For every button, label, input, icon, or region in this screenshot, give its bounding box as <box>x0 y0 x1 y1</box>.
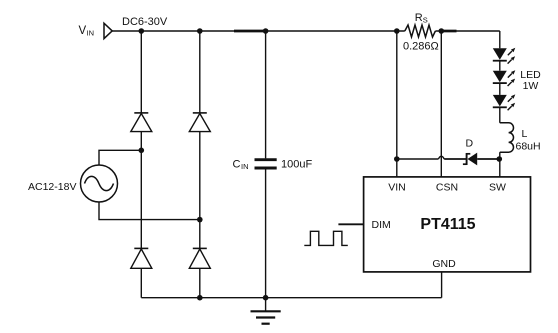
node bottom rail / right leg <box>197 295 203 301</box>
svg-text:VIN: VIN <box>388 182 406 194</box>
capacitor CIN branch wire upper <box>265 31 267 158</box>
LED D3 <box>493 94 516 110</box>
wire top rail left segment <box>112 30 405 32</box>
svg-text:DIM: DIM <box>372 219 391 231</box>
svg-text:C: C <box>233 159 241 171</box>
PWM square wave symbol <box>304 231 348 245</box>
AC source V1 <box>81 165 118 202</box>
ground <box>251 311 281 323</box>
diode bridge bottom-right <box>189 248 210 268</box>
wire thick segment after Rs <box>441 30 456 33</box>
svg-text:PT4115: PT4115 <box>420 216 475 233</box>
wire bottom rail <box>141 297 441 299</box>
node top rail / CIN <box>263 28 269 34</box>
input port triangle VIN <box>104 23 112 38</box>
svg-text:L: L <box>522 128 528 140</box>
wire DIM pin <box>338 223 363 225</box>
resistor Rs <box>405 25 436 37</box>
svg-text:GND: GND <box>432 258 456 270</box>
svg-text:S: S <box>423 15 428 24</box>
IC U1 PT4115 <box>364 177 531 272</box>
wire LED to inductor <box>499 107 501 123</box>
LED D1 <box>493 48 516 64</box>
svg-text:68uH: 68uH <box>516 141 541 153</box>
node bottom rail / ground <box>263 295 269 301</box>
svg-text:AC12-18V: AC12-18V <box>28 181 76 193</box>
wire thick segment before CIN node <box>234 30 266 33</box>
wire top rail right segment <box>435 30 499 32</box>
wire inductor to SW pin <box>499 152 501 177</box>
svg-text:SW: SW <box>489 182 506 194</box>
svg-text:R: R <box>415 12 423 24</box>
svg-text:IN: IN <box>87 29 95 38</box>
svg-text:1W: 1W <box>523 80 539 92</box>
wire diode to SW node <box>477 158 499 160</box>
svg-text:D: D <box>466 138 474 150</box>
wire left bridge leg middle <box>140 132 142 249</box>
wire CSN pin drop <box>440 31 442 177</box>
wire AC bottom terminal <box>99 202 200 220</box>
svg-text:100uF: 100uF <box>281 159 312 171</box>
diode bridge top-right <box>189 113 210 132</box>
wire LED link 1 <box>499 61 501 71</box>
wire right bridge leg upper <box>199 31 201 113</box>
diode bridge top-left <box>131 113 152 132</box>
node top rail / left bridge leg <box>139 28 145 34</box>
wire AC top terminal <box>99 150 141 165</box>
node top rail / right bridge leg <box>197 28 203 34</box>
wire VIN pin drop <box>396 31 398 177</box>
wire hop over CSN <box>438 156 444 159</box>
capacitor CIN <box>255 160 277 168</box>
wire SW branch top <box>499 31 501 48</box>
wire right bridge leg middle <box>199 132 201 249</box>
wire LED link 2 <box>499 83 501 95</box>
wire left bridge leg upper <box>140 31 142 113</box>
LED D2 <box>493 70 516 86</box>
wire freewheel to diode <box>444 158 466 160</box>
node AC bottom / right leg <box>197 217 203 223</box>
svg-text:IN: IN <box>241 162 249 171</box>
wire right bridge leg lower <box>199 268 201 297</box>
node VIN line / freewheel wire <box>394 156 400 162</box>
diode D (schottky) <box>463 153 477 166</box>
capacitor CIN branch wire lower <box>265 168 267 311</box>
svg-text:DC6-30V: DC6-30V <box>122 16 168 28</box>
node top rail / VIN pin <box>394 28 400 34</box>
svg-text:0.286Ω: 0.286Ω <box>403 41 439 53</box>
wire left bridge leg lower <box>140 268 142 297</box>
wire freewheel left segment <box>397 158 439 160</box>
inductor L <box>500 123 514 152</box>
node top rail / CSN pin <box>439 28 445 34</box>
node SW / freewheel wire <box>497 156 503 162</box>
svg-text:CSN: CSN <box>436 182 458 194</box>
node AC top / left leg <box>139 148 145 154</box>
svg-text:V: V <box>79 25 87 37</box>
diode bridge bottom-left <box>131 248 152 268</box>
wire GND pin drop <box>441 272 443 298</box>
